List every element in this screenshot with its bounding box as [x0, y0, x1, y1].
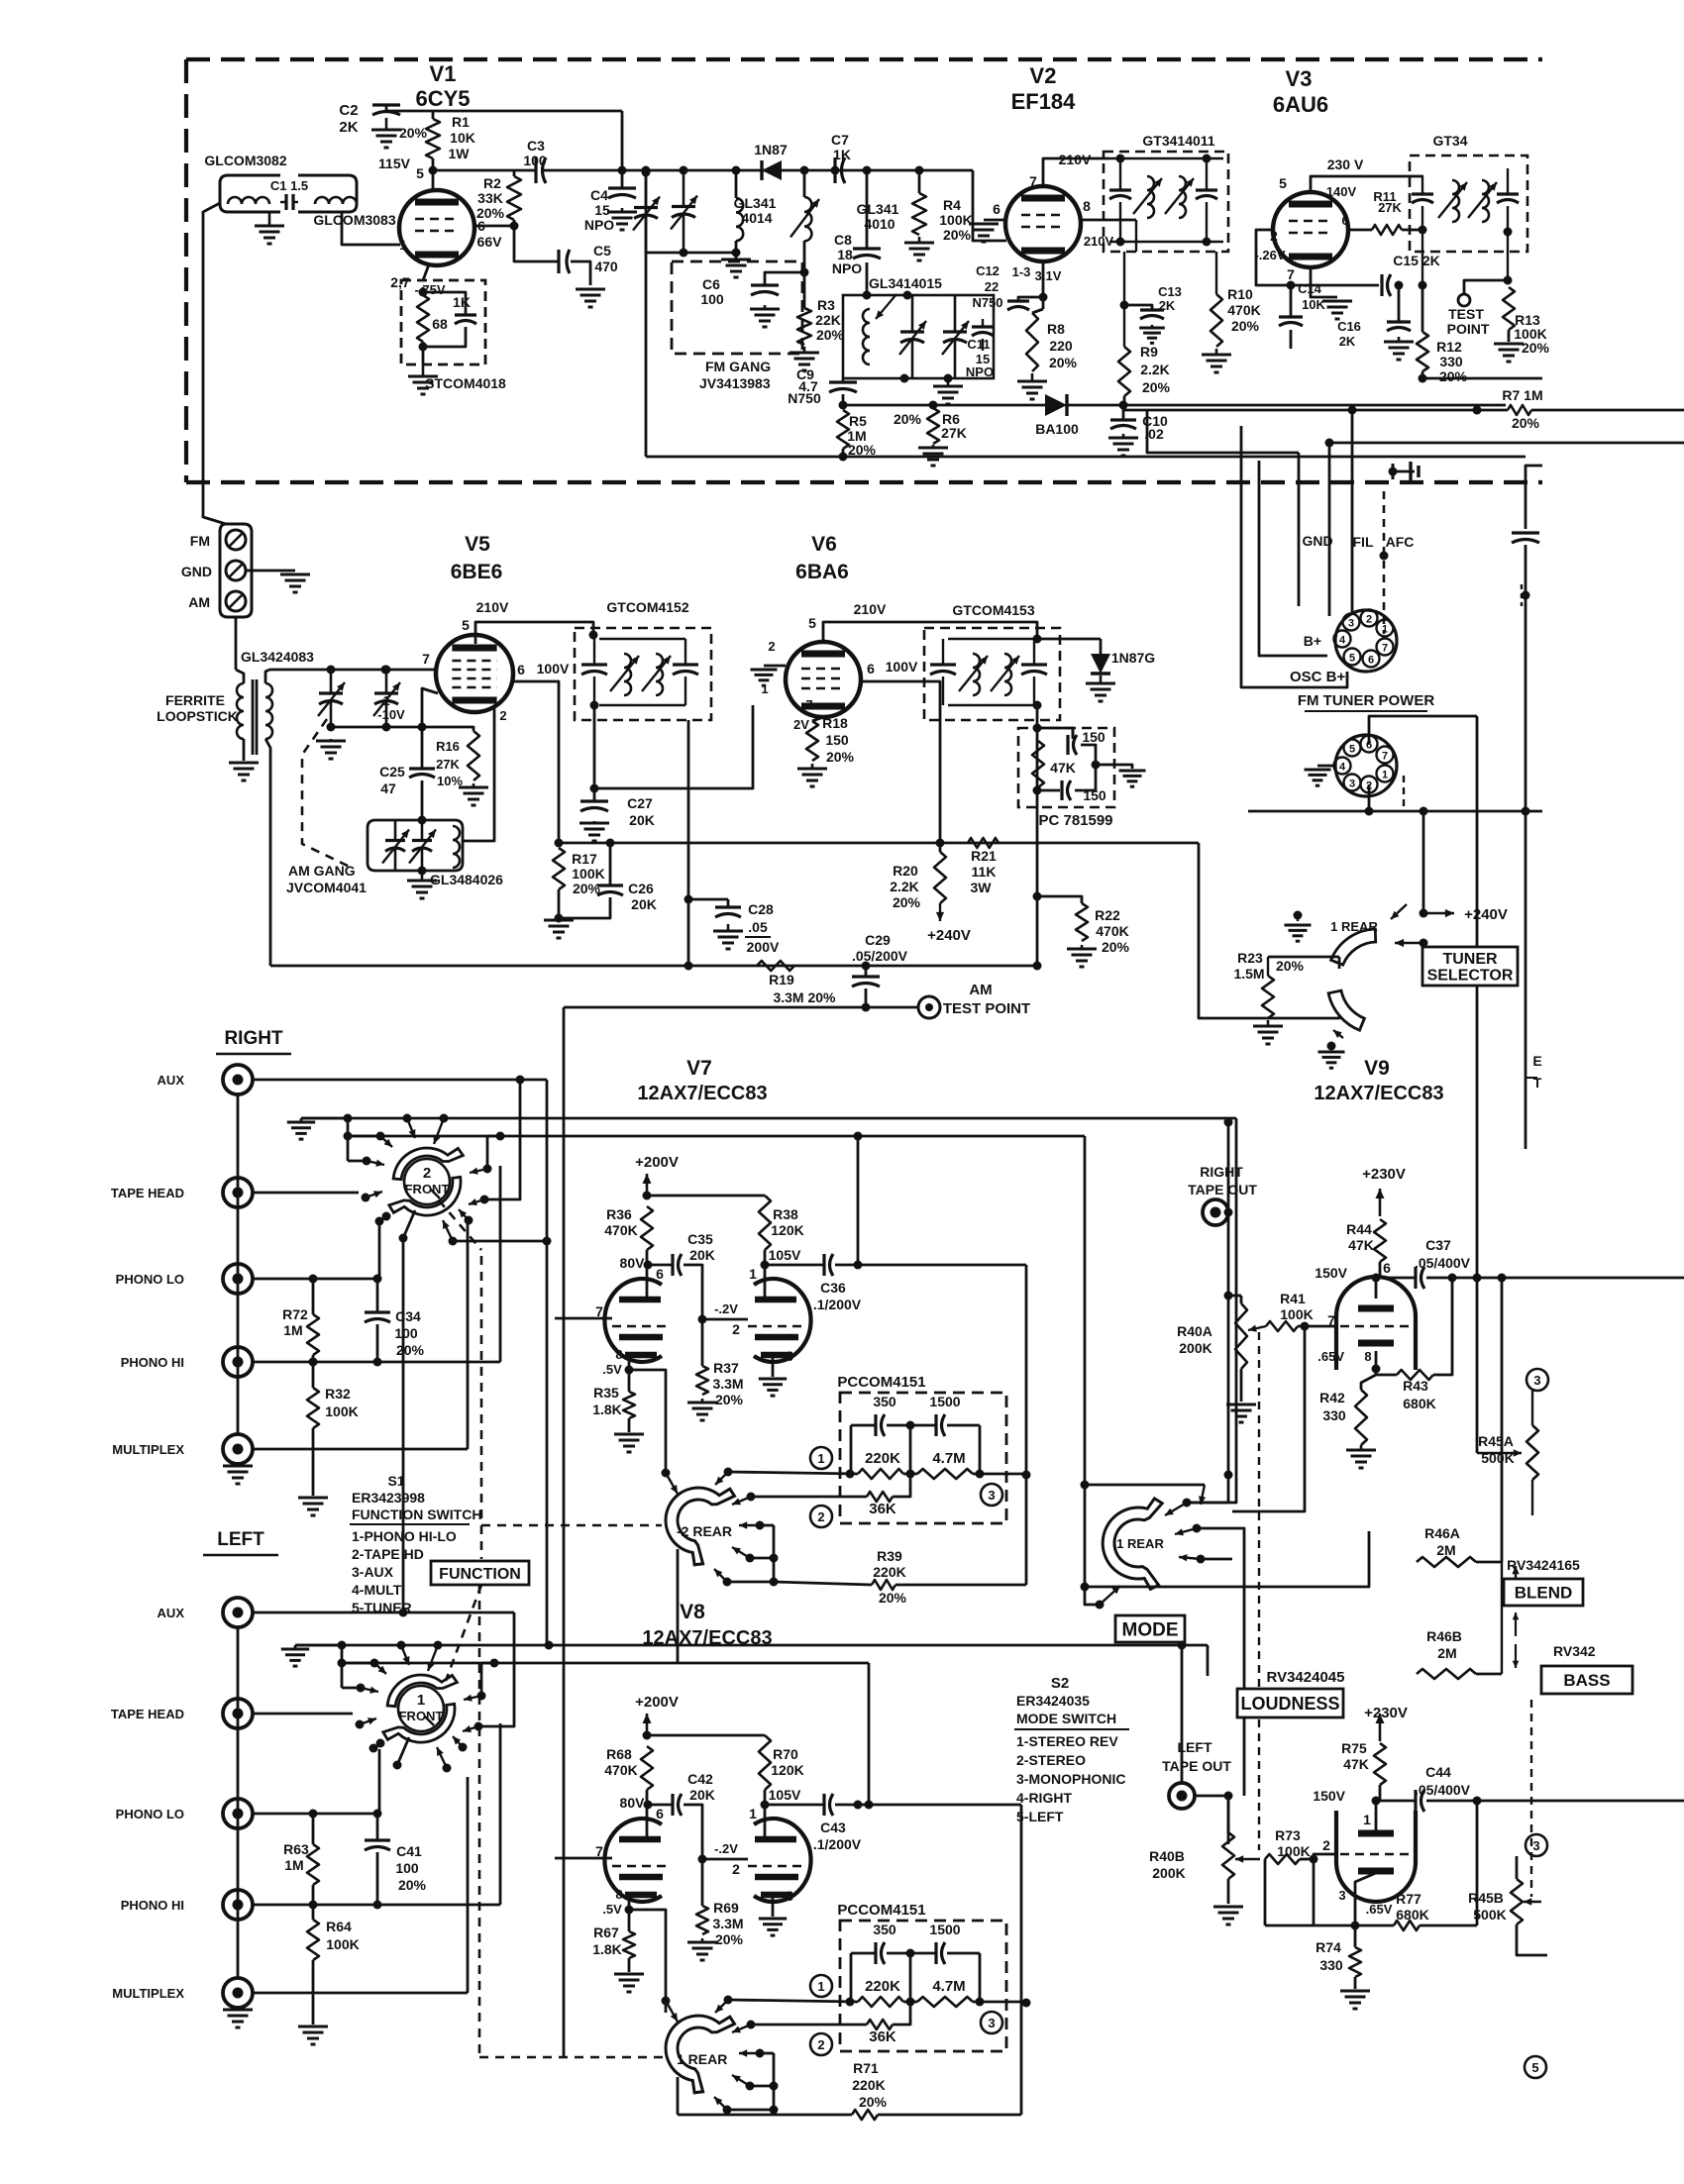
svg-text:20%: 20%	[894, 411, 922, 427]
bus corner down	[1199, 843, 1339, 1018]
svg-text:5: 5	[462, 617, 470, 633]
svg-text:100K: 100K	[325, 1404, 358, 1419]
svg-text:20K: 20K	[631, 896, 657, 912]
bus wire y819	[1248, 810, 1542, 813]
svg-text:NPO: NPO	[966, 364, 994, 379]
svg-text:2M: 2M	[1436, 1542, 1455, 1558]
svg-text:FIL: FIL	[1353, 534, 1374, 550]
triode half right	[754, 1819, 811, 1902]
svg-text:C35: C35	[687, 1231, 713, 1247]
svg-text:3.1V: 3.1V	[1035, 268, 1062, 283]
svg-text:3W: 3W	[971, 880, 993, 895]
svg-text:R16: R16	[436, 739, 460, 754]
svg-text:R73: R73	[1275, 1827, 1301, 1843]
svg-text:1-3: 1-3	[1012, 264, 1031, 279]
4153 coils	[973, 654, 980, 695]
svg-text:FUNCTION: FUNCTION	[439, 1566, 521, 1583]
svg-text:R70: R70	[773, 1746, 798, 1762]
1 REAR right contacts	[724, 1996, 733, 2005]
svg-text:4.7M: 4.7M	[932, 1978, 965, 1995]
svg-text:6AU6: 6AU6	[1273, 92, 1328, 117]
svg-text:R22: R22	[1095, 907, 1120, 923]
svg-text:210V: 210V	[854, 601, 887, 617]
ground under tank	[421, 872, 424, 881]
svg-text:47K: 47K	[1050, 760, 1076, 776]
svg-text:C26: C26	[628, 881, 654, 896]
svg-text:GL341: GL341	[857, 201, 899, 217]
triode half V9a	[1336, 1277, 1416, 1370]
svg-text:1K: 1K	[453, 294, 471, 310]
GT34 secondary cap	[1497, 192, 1519, 195]
svg-text:20%: 20%	[879, 1590, 907, 1606]
svg-text:V6: V6	[811, 533, 837, 556]
AM oscillator tank GL3484026	[368, 820, 422, 871]
ground stub left arc	[1294, 911, 1303, 920]
-2 REAR input contact	[662, 1469, 671, 1478]
svg-text:.1/200V: .1/200V	[813, 1836, 862, 1852]
tank varcap 1	[911, 295, 914, 332]
wire lower right rails	[1329, 442, 1684, 445]
svg-text:330: 330	[1322, 1407, 1346, 1423]
wire RIGHT MULTIPLEX	[253, 1448, 468, 1451]
svg-text:5: 5	[1349, 653, 1355, 665]
svg-text:RV3424045: RV3424045	[1267, 1669, 1345, 1686]
svg-text:N750: N750	[788, 390, 821, 406]
svg-text:6: 6	[656, 1266, 664, 1282]
svg-text:2: 2	[817, 1509, 824, 1524]
R45B chain	[1526, 1834, 1547, 1856]
FM gang dashed box	[672, 261, 802, 354]
R45A chain	[1526, 1369, 1548, 1391]
svg-text:3: 3	[1532, 1838, 1539, 1853]
svg-text:-.2V: -.2V	[714, 1301, 738, 1316]
svg-text:C13: C13	[1158, 284, 1182, 299]
svg-text:20%: 20%	[715, 1392, 744, 1407]
svg-text:POINT: POINT	[1447, 321, 1490, 337]
svg-text:20%: 20%	[715, 1931, 744, 1947]
svg-text:1: 1	[1382, 770, 1388, 781]
svg-text:100K: 100K	[326, 1936, 359, 1952]
svg-text:R20: R20	[893, 863, 918, 879]
svg-text:3: 3	[1533, 1373, 1540, 1388]
svg-text:R67: R67	[593, 1924, 619, 1940]
wire RIGHT PHONO HI	[253, 1361, 500, 1364]
svg-text:BA100: BA100	[1035, 421, 1079, 437]
svg-text:200K: 200K	[1179, 1340, 1211, 1356]
svg-text:S2: S2	[1051, 1675, 1069, 1692]
MODE box	[1115, 1615, 1185, 1642]
svg-text:+240V: +240V	[927, 927, 971, 944]
svg-text:FM: FM	[190, 533, 210, 549]
svg-text:OSC B+: OSC B+	[1290, 669, 1346, 685]
svg-text:1: 1	[1363, 1812, 1371, 1827]
svg-text:20%: 20%	[1276, 958, 1305, 974]
svg-text:C43: C43	[820, 1820, 846, 1835]
svg-text:TAPE HEAD: TAPE HEAD	[111, 1707, 184, 1721]
svg-text:2K: 2K	[1339, 334, 1356, 349]
svg-text:MODE SWITCH: MODE SWITCH	[1016, 1711, 1116, 1726]
C43 output riser	[868, 1663, 871, 1805]
svg-text:500K: 500K	[1473, 1907, 1506, 1923]
long bus wires right channel	[301, 1117, 1236, 1120]
svg-text:100K: 100K	[939, 212, 972, 228]
svg-text:PCCOM4151: PCCOM4151	[837, 1374, 925, 1391]
svg-text:-10V: -10V	[377, 707, 405, 722]
T1 primary coil	[1147, 176, 1154, 218]
svg-text:1: 1	[817, 1451, 824, 1466]
AM bottom rail	[270, 965, 1037, 968]
svg-text:20K: 20K	[689, 1247, 715, 1263]
svg-text:6: 6	[517, 662, 525, 677]
svg-text:GND: GND	[181, 564, 212, 579]
wire RIGHT PHONO LO	[253, 1278, 379, 1281]
wire balun to V1 grid	[342, 212, 400, 245]
svg-text:3: 3	[988, 1488, 995, 1503]
triode half V9b	[1336, 1811, 1416, 1902]
svg-text:1.5M: 1.5M	[1233, 966, 1264, 982]
jack RIGHT AUX	[223, 1065, 253, 1094]
svg-text:R44: R44	[1346, 1221, 1372, 1237]
svg-text:5: 5	[1531, 2060, 1538, 2075]
jack LEFT TAPE HEAD	[223, 1699, 253, 1728]
svg-text:1500: 1500	[929, 1394, 960, 1409]
circled contact 1	[810, 1447, 832, 1469]
wire LEFT AUX to switch	[253, 1612, 514, 1614]
svg-text:20%: 20%	[943, 227, 972, 243]
svg-text:C28: C28	[748, 901, 774, 917]
svg-text:1N87: 1N87	[754, 142, 788, 157]
svg-text:20%: 20%	[1102, 939, 1130, 955]
svg-text:7: 7	[1382, 751, 1388, 763]
svg-text:6CY5: 6CY5	[415, 86, 470, 111]
svg-text:1 REAR: 1 REAR	[1330, 919, 1378, 934]
ground under loopstick	[243, 739, 246, 761]
svg-text:GLCOM3083: GLCOM3083	[313, 212, 395, 228]
svg-text:5: 5	[1349, 744, 1355, 756]
cathode to rear switch	[629, 1370, 666, 1473]
svg-text:100: 100	[700, 291, 724, 307]
wires caps row	[851, 1952, 876, 1955]
svg-text:210V: 210V	[476, 599, 509, 615]
svg-text:7: 7	[1327, 1312, 1335, 1328]
svg-text:2: 2	[732, 1861, 740, 1877]
T1 secondary cap	[1196, 188, 1217, 191]
long bus wires left channel	[295, 1644, 1208, 1647]
svg-text:1-PHONO HI-LO: 1-PHONO HI-LO	[352, 1528, 457, 1544]
svg-text:100K: 100K	[1280, 1306, 1313, 1322]
svg-text:R46A: R46A	[1424, 1525, 1460, 1541]
svg-text:1: 1	[382, 693, 389, 708]
svg-text:C36: C36	[820, 1280, 846, 1296]
svg-text:V5: V5	[465, 533, 490, 556]
svg-text:100V: 100V	[537, 661, 570, 676]
svg-text:PHONO HI: PHONO HI	[121, 1355, 184, 1370]
loudness gang dashed	[1258, 1332, 1260, 1687]
svg-text:R5: R5	[849, 413, 867, 429]
svg-text:JV3413983: JV3413983	[699, 375, 771, 391]
svg-text:470K: 470K	[604, 1762, 637, 1778]
svg-text:20%: 20%	[476, 205, 505, 221]
svg-text:330: 330	[1439, 354, 1463, 369]
tuner output wire	[564, 1006, 866, 1009]
svg-text:N750: N750	[972, 295, 1002, 310]
jack column wire RIGHT	[237, 1094, 240, 1434]
svg-text:7: 7	[1382, 643, 1388, 655]
svg-text:150V: 150V	[1313, 1788, 1345, 1804]
svg-text:R37: R37	[713, 1360, 739, 1376]
svg-text:3: 3	[988, 2016, 995, 2030]
rotary switch 1 REAR ring	[666, 2016, 734, 2093]
svg-text:100: 100	[394, 1325, 418, 1341]
svg-text:+230V: +230V	[1364, 1705, 1408, 1721]
svg-text:2-TAPE HD: 2-TAPE HD	[352, 1546, 424, 1562]
long vertical to V9	[1476, 716, 1479, 1453]
jack RIGHT TAPE HEAD	[223, 1178, 253, 1207]
svg-text:C37: C37	[1425, 1237, 1451, 1253]
svg-text:4: 4	[1339, 762, 1346, 774]
svg-text:1: 1	[749, 1806, 757, 1821]
svg-text:66V: 66V	[477, 234, 503, 250]
ground under LEFT multiplex	[237, 2008, 240, 2010]
C36 node down to mode	[1025, 1265, 1028, 1474]
wire LEFT PHONO LO	[253, 1813, 379, 1816]
svg-text:2: 2	[732, 1321, 740, 1337]
wire R7 line to GND drop	[1147, 410, 1299, 453]
FM tuner power socket	[1335, 610, 1397, 672]
svg-text:BLEND: BLEND	[1515, 1584, 1573, 1603]
svg-text:R3: R3	[817, 297, 835, 313]
S1F multi riser to left aux	[402, 1238, 405, 1612]
svg-text:20K: 20K	[689, 1787, 715, 1803]
wire R12 bottom	[1422, 377, 1542, 380]
tank varcap 2	[954, 295, 957, 332]
svg-text:R8: R8	[1047, 321, 1065, 337]
4152 coils	[624, 654, 631, 695]
svg-text:7: 7	[422, 651, 430, 667]
svg-text:FERRITE: FERRITE	[165, 692, 225, 708]
svg-text:2: 2	[499, 708, 506, 723]
selector socket	[1335, 735, 1397, 796]
wire tape out to pot R40B	[1195, 1795, 1228, 1798]
ground STCOM4018	[422, 364, 425, 376]
svg-text:470K: 470K	[1096, 923, 1128, 939]
svg-text:V2: V2	[1030, 63, 1057, 88]
svg-text:68: 68	[432, 316, 448, 332]
svg-text:C34: C34	[395, 1308, 421, 1324]
V5 pin6 wire	[513, 681, 559, 843]
ground PC781599	[1096, 765, 1132, 769]
svg-text:R35: R35	[593, 1385, 619, 1401]
svg-text:150: 150	[1082, 729, 1105, 745]
wire 115V rail to V2	[433, 169, 536, 172]
svg-text:RIGHT: RIGHT	[1200, 1164, 1243, 1180]
svg-text:C3: C3	[527, 138, 545, 154]
svg-text:AFC: AFC	[1386, 534, 1415, 550]
S2F bottom contacts	[443, 1764, 452, 1773]
svg-text:R40B: R40B	[1149, 1848, 1185, 1864]
svg-text:3: 3	[786, 1888, 793, 1904]
GT34 coils	[1452, 180, 1459, 222]
svg-text:20%: 20%	[826, 749, 855, 765]
svg-text:6: 6	[1368, 655, 1374, 667]
svg-text:GLCOM3082: GLCOM3082	[204, 153, 286, 168]
svg-text:100: 100	[395, 1860, 419, 1876]
svg-text:C42: C42	[687, 1771, 713, 1787]
C36 output to bus	[857, 1136, 860, 1265]
S2F top contacts	[338, 1641, 347, 1650]
AM gang dashed linkage	[302, 719, 352, 868]
svg-text:R64: R64	[326, 1919, 352, 1934]
FM terminal	[226, 530, 246, 550]
svg-text:5: 5	[1279, 175, 1287, 191]
svg-text:4.7M: 4.7M	[932, 1450, 965, 1467]
jack RIGHT PHONO LO	[223, 1264, 253, 1294]
svg-text:3: 3	[786, 1348, 793, 1364]
rotary switch S1 front ring	[393, 1148, 463, 1180]
4153 primary cap	[930, 663, 956, 666]
svg-text:8: 8	[615, 1347, 622, 1362]
V6 screen wire 100V	[861, 681, 940, 852]
svg-text:200K: 200K	[1152, 1865, 1185, 1881]
svg-text:15: 15	[594, 202, 610, 218]
svg-text:R45A: R45A	[1478, 1433, 1514, 1449]
svg-text:470K: 470K	[1227, 302, 1260, 318]
svg-text:R19: R19	[769, 972, 794, 988]
varcap bottom wire	[331, 726, 422, 729]
svg-text:TAPE OUT: TAPE OUT	[1162, 1758, 1231, 1774]
svg-text:3: 3	[1348, 618, 1354, 630]
svg-text:22: 22	[985, 279, 999, 294]
svg-text:3.3M: 3.3M	[712, 1916, 743, 1931]
svg-text:-.26V: -.26V	[1254, 248, 1285, 262]
svg-text:R74: R74	[1316, 1939, 1341, 1955]
S1F lower-left contacts	[382, 1212, 391, 1221]
svg-text:LOUDNESS: LOUDNESS	[1240, 1694, 1339, 1714]
svg-text:220K: 220K	[873, 1564, 905, 1580]
svg-text:220K: 220K	[865, 1450, 900, 1467]
svg-text:2: 2	[1366, 614, 1372, 626]
ground at GND terminal	[246, 570, 295, 572]
svg-text:R77: R77	[1396, 1891, 1421, 1907]
svg-text:R38: R38	[773, 1206, 798, 1222]
svg-text:200V: 200V	[747, 939, 780, 955]
svg-text:2-STEREO: 2-STEREO	[1016, 1752, 1086, 1768]
svg-text:E: E	[1532, 1053, 1541, 1069]
svg-text:R69: R69	[713, 1900, 739, 1916]
svg-text:R42: R42	[1319, 1390, 1345, 1405]
svg-text:R39: R39	[877, 1548, 902, 1564]
wire AM tank return	[265, 739, 270, 966]
svg-text:3-MONOPHONIC: 3-MONOPHONIC	[1016, 1771, 1125, 1787]
svg-text:20%: 20%	[1439, 368, 1468, 384]
svg-text:R46B: R46B	[1426, 1628, 1462, 1644]
svg-text:C27: C27	[627, 795, 653, 811]
svg-text:R7 1M: R7 1M	[1502, 387, 1542, 403]
svg-text:C44: C44	[1425, 1764, 1451, 1780]
svg-text:5-LEFT: 5-LEFT	[1016, 1809, 1064, 1824]
svg-text:36K: 36K	[869, 1501, 896, 1517]
wire C2 to R1 top rail	[385, 105, 388, 111]
dashed gang line right	[1530, 1700, 1532, 1897]
wires caps row	[851, 1424, 876, 1427]
svg-text:1N87G: 1N87G	[1111, 650, 1155, 666]
AM tuning varcap 2	[385, 670, 388, 693]
4152 secondary cap	[673, 663, 698, 666]
svg-text:20%: 20%	[1142, 379, 1171, 395]
svg-text:C16: C16	[1337, 319, 1361, 334]
tube V6 6BA6	[786, 642, 861, 717]
dashed AFC line	[1383, 491, 1386, 634]
svg-text:2: 2	[768, 639, 775, 654]
svg-text:115V: 115V	[378, 156, 411, 171]
right margin vertical	[1526, 466, 1542, 529]
svg-text:105V: 105V	[769, 1787, 801, 1803]
FUNCTION box	[431, 1561, 529, 1585]
svg-text:R63: R63	[283, 1841, 309, 1857]
svg-text:22K: 22K	[815, 312, 841, 328]
tuner output vertical	[563, 1007, 566, 2057]
svg-text:47K: 47K	[1348, 1237, 1374, 1253]
wire mode feed	[1081, 1481, 1090, 1490]
S2F ground contact	[281, 1648, 309, 1651]
ground under tank	[947, 380, 950, 386]
svg-text:120K: 120K	[771, 1762, 803, 1778]
R45A wiper from V9a	[1476, 1452, 1479, 1455]
svg-text:+240V: +240V	[1464, 906, 1508, 923]
svg-text:6BA6: 6BA6	[795, 561, 849, 583]
svg-text:10K: 10K	[1302, 297, 1325, 312]
svg-text:6: 6	[867, 661, 875, 676]
selector lower arc contact	[1333, 1030, 1343, 1038]
svg-text:20K: 20K	[629, 812, 655, 828]
svg-text:MULTIPLEX: MULTIPLEX	[112, 1442, 184, 1457]
svg-text:C8: C8	[834, 232, 852, 248]
wire AVC bus	[843, 404, 1048, 407]
svg-text:12AX7/ECC83: 12AX7/ECC83	[637, 1083, 767, 1104]
svg-text:.65V: .65V	[1317, 1349, 1344, 1364]
svg-text:AM: AM	[188, 594, 210, 610]
svg-text:.65V: .65V	[1366, 1902, 1393, 1917]
svg-text:C41: C41	[396, 1843, 422, 1859]
detector network PC 781599	[1018, 728, 1114, 807]
T1 primary cap	[1109, 188, 1131, 191]
tube V2 EF184	[1005, 186, 1081, 261]
svg-text:EF184: EF184	[1011, 89, 1077, 114]
main row wire	[728, 2000, 858, 2002]
svg-text:2.2K: 2.2K	[1140, 362, 1170, 377]
svg-text:1 REAR: 1 REAR	[1116, 1536, 1164, 1551]
mode right contacts	[1193, 1524, 1202, 1533]
svg-text:4010: 4010	[864, 216, 895, 232]
circled contact 2	[810, 2033, 832, 2055]
svg-text:R17: R17	[572, 851, 597, 867]
svg-text:GTCOM4153: GTCOM4153	[952, 602, 1034, 618]
svg-text:20%: 20%	[1522, 340, 1550, 356]
1 REAR input contact	[662, 1997, 671, 2006]
S1F right contacts	[483, 1165, 492, 1174]
dashed to S2 front	[446, 1585, 481, 1681]
svg-text:LEFT: LEFT	[217, 1529, 264, 1550]
FUNCTION ganging dashed line	[480, 1256, 483, 1559]
svg-text:8: 8	[1364, 1349, 1371, 1364]
svg-text:R23: R23	[1237, 950, 1263, 966]
+240V selector feed	[1420, 909, 1428, 918]
svg-text:7: 7	[805, 697, 812, 712]
svg-text:FRONT: FRONT	[399, 1709, 444, 1723]
AM terminal	[226, 591, 246, 611]
svg-text:AM GANG: AM GANG	[288, 863, 356, 879]
svg-text:STCOM4018: STCOM4018	[425, 375, 506, 391]
